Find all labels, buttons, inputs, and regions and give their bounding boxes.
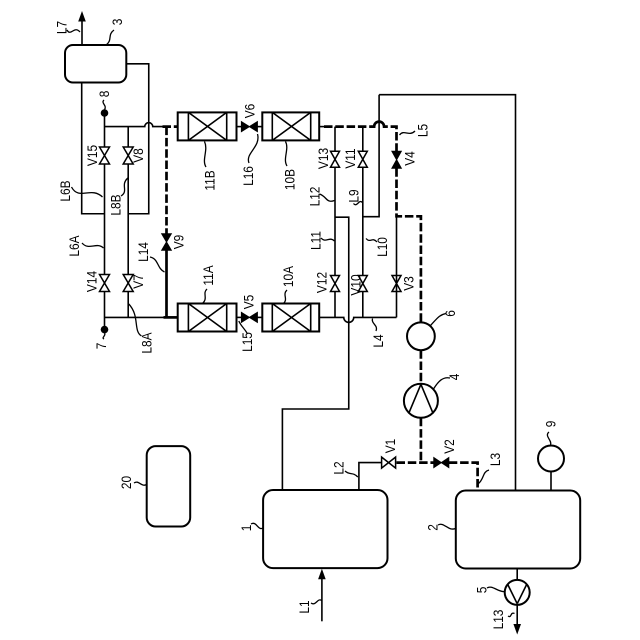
svg-text:V11: V11 bbox=[342, 148, 358, 168]
valve V9 (filled) bbox=[162, 234, 172, 250]
valve V14 bbox=[100, 275, 110, 292]
svg-text:L13: L13 bbox=[490, 610, 506, 630]
wire from unit 3 bottom (L6B) bbox=[82, 83, 105, 214]
wire top-right loop to tank 2 bbox=[379, 95, 515, 491]
pump 4 (circle with triangle) bbox=[404, 384, 438, 418]
svg-text:V7: V7 bbox=[130, 274, 146, 289]
svg-text:11B: 11B bbox=[202, 170, 218, 190]
leader squiggle for 10A bbox=[284, 290, 288, 304]
svg-text:V3: V3 bbox=[401, 276, 417, 291]
leader squiggle for L9 bbox=[354, 201, 363, 204]
tank 1 bbox=[263, 490, 387, 568]
svg-text:L16: L16 bbox=[240, 166, 256, 186]
leader squiggle for 6 bbox=[431, 314, 447, 326]
wire right riser x=379 with jog to L9 bbox=[363, 95, 379, 217]
valve V4 (filled) bbox=[392, 151, 401, 168]
leader squiggle for 1 bbox=[251, 523, 263, 528]
wire dashed between 6 and pump 4 bbox=[420, 350, 423, 384]
svg-text:8: 8 bbox=[96, 91, 112, 98]
wire branch from junction to tank 1 bbox=[282, 217, 348, 490]
leader squiggle for 4 bbox=[434, 378, 451, 389]
heat exchanger 10A bbox=[262, 304, 319, 332]
wire stub 11A to V5 bbox=[237, 316, 242, 318]
wire line L8B/L8A vertical bbox=[127, 127, 129, 318]
svg-text:1: 1 bbox=[238, 525, 254, 532]
arrow L13 out of pump 5 bbox=[516, 605, 518, 626]
svg-text:V6: V6 bbox=[242, 104, 258, 119]
wire line below V3 jog corner bbox=[396, 217, 398, 317]
wire line L9/L10 vertical (V11,V10) bbox=[362, 127, 364, 318]
leader squiggle for L2 bbox=[345, 471, 358, 477]
svg-text:V15: V15 bbox=[84, 145, 100, 166]
heat exchanger 10B bbox=[262, 112, 319, 140]
heat exchanger 11B bbox=[178, 112, 237, 140]
svg-text:L8B: L8B bbox=[107, 194, 123, 215]
arrow L7 out of unit 3 bbox=[81, 20, 83, 45]
wire dashed V1 to V2 to tank 2 bbox=[397, 461, 434, 464]
wire stub V5 to 10A bbox=[257, 316, 262, 318]
svg-text:V1: V1 bbox=[382, 439, 398, 454]
valve V11 bbox=[358, 151, 367, 167]
wire bus to 11A bbox=[105, 316, 165, 318]
leader squiggle for L5 bbox=[400, 131, 416, 135]
wire bus L4 with downward hop bbox=[319, 317, 396, 322]
leader squiggle for L16 bbox=[248, 134, 258, 163]
svg-text:4: 4 bbox=[446, 374, 462, 381]
svg-text:L7: L7 bbox=[53, 21, 69, 34]
svg-text:V8: V8 bbox=[130, 148, 146, 163]
leader squiggle for L14 bbox=[150, 257, 165, 272]
leader squiggle for 11B bbox=[204, 142, 206, 168]
svg-text:10A: 10A bbox=[280, 266, 296, 287]
svg-text:L12: L12 bbox=[306, 187, 322, 207]
controller 20 (rounded box) bbox=[147, 446, 191, 526]
leader squiggle for 10B bbox=[285, 142, 287, 167]
wire dashed pump 4 down to valve row bbox=[420, 418, 423, 463]
unit 3 (rounded box) bbox=[65, 45, 126, 83]
heat exchanger 11A bbox=[178, 304, 237, 332]
leader squiggle for L6B bbox=[72, 187, 103, 197]
valve V12 bbox=[331, 276, 340, 292]
leader squiggle for 7 bbox=[103, 333, 105, 339]
wire bold into 11A bbox=[164, 316, 178, 319]
sensor 6 (circle) bbox=[407, 322, 435, 350]
leader squiggle for 20 bbox=[134, 482, 147, 485]
wire dashed L3 to tank 2 bbox=[449, 463, 478, 491]
valve V2 (filled) bbox=[434, 458, 449, 468]
valve V10 bbox=[358, 276, 367, 292]
svg-text:L10: L10 bbox=[374, 237, 390, 257]
svg-text:3: 3 bbox=[109, 19, 125, 26]
wire stub V6 to 10B bbox=[257, 126, 262, 128]
pump 5 (circle with triangle) bbox=[505, 580, 530, 605]
leader squiggle for L4 bbox=[372, 319, 376, 332]
leader squiggle for 3 bbox=[106, 30, 114, 45]
svg-text:L6B: L6B bbox=[57, 180, 73, 201]
leader squiggle for 11A bbox=[203, 289, 208, 304]
svg-text:L5: L5 bbox=[414, 124, 430, 137]
svg-text:10B: 10B bbox=[282, 169, 298, 190]
valve V1 bbox=[382, 457, 396, 468]
svg-text:L6A: L6A bbox=[66, 235, 82, 256]
wire stub 11B to V6 bbox=[237, 126, 242, 128]
svg-text:L14: L14 bbox=[135, 242, 151, 262]
valve V5 (filled) bbox=[241, 312, 257, 322]
svg-text:V4: V4 bbox=[402, 151, 418, 166]
wire L2 from tank 1 up and to V1 bbox=[359, 463, 382, 490]
valve V7 bbox=[123, 275, 133, 292]
leader squiggle for L6A bbox=[82, 243, 104, 248]
node 7 (line end dot) bbox=[101, 326, 109, 334]
leader squiggle for L10 bbox=[366, 239, 377, 243]
svg-text:V9: V9 bbox=[171, 235, 187, 250]
leader squiggle for L1 bbox=[311, 600, 322, 604]
svg-text:L2: L2 bbox=[330, 461, 346, 474]
arrow L1 into tank 1 bbox=[321, 577, 323, 621]
wire dashed top bus from 10B with hop bbox=[319, 126, 325, 128]
leader squiggle for L8A bbox=[129, 304, 142, 336]
svg-text:V13: V13 bbox=[315, 148, 331, 169]
svg-text:V12: V12 bbox=[313, 272, 329, 293]
leader squiggle for L3 bbox=[478, 470, 489, 484]
svg-text:9: 9 bbox=[542, 421, 558, 428]
leader squiggle for L15 bbox=[239, 321, 247, 333]
leader squiggle for 2 bbox=[438, 524, 456, 529]
svg-text:L3: L3 bbox=[487, 453, 503, 466]
wire line L6B/L6A vertical (node 8 to node 7) bbox=[104, 113, 106, 330]
svg-text:V10: V10 bbox=[347, 274, 363, 295]
tank 2 bbox=[456, 491, 580, 569]
leader squiggle for 5 bbox=[487, 587, 505, 591]
node 8 (line end dot) bbox=[101, 109, 109, 117]
valve V15 bbox=[100, 147, 110, 164]
leader squiggle for 9 bbox=[547, 432, 550, 445]
leader squiggle for L11 bbox=[321, 238, 335, 241]
wire from unit 3 right side to line L8B bbox=[126, 64, 148, 214]
valve V8 bbox=[123, 147, 133, 164]
leader squiggle for L12 bbox=[320, 194, 335, 201]
svg-text:V2: V2 bbox=[441, 439, 457, 454]
wire dashed L14 vertical bbox=[165, 127, 168, 234]
svg-text:L15: L15 bbox=[239, 332, 255, 352]
wire hop of dashed bus over riser bbox=[372, 122, 387, 127]
wire dashed into 11B bbox=[163, 125, 178, 128]
wire dashed below V4 with jog to pump line bbox=[397, 168, 421, 322]
svg-text:7: 7 bbox=[93, 343, 109, 350]
svg-text:L11: L11 bbox=[307, 231, 323, 250]
svg-text:V14: V14 bbox=[83, 271, 99, 292]
valve V3 bbox=[392, 276, 401, 292]
svg-text:20: 20 bbox=[118, 476, 134, 489]
wire tank 2 bottom to pump 5 bbox=[516, 569, 518, 581]
wire below V9 (bold) bbox=[165, 250, 168, 317]
leader squiggle for L7 bbox=[67, 30, 80, 33]
valve V6 (filled) bbox=[241, 122, 257, 132]
wire line L12/L11 vertical (V13,V12) bbox=[334, 127, 336, 318]
wire sensor 9 to tank 2 bbox=[550, 472, 552, 491]
leader squiggle for L8B bbox=[121, 178, 128, 196]
svg-text:11A: 11A bbox=[200, 265, 216, 286]
wire top bus with hop over vertical line bbox=[105, 123, 164, 127]
svg-text:L9: L9 bbox=[346, 189, 362, 202]
valve V13 bbox=[331, 151, 340, 167]
leader squiggle for 8 bbox=[103, 100, 105, 110]
svg-text:L1: L1 bbox=[296, 600, 312, 613]
sensor 9 (circle) bbox=[538, 446, 564, 472]
leader squiggle for L13 bbox=[508, 613, 515, 616]
svg-text:L4: L4 bbox=[370, 334, 386, 347]
svg-text:V5: V5 bbox=[241, 295, 257, 310]
